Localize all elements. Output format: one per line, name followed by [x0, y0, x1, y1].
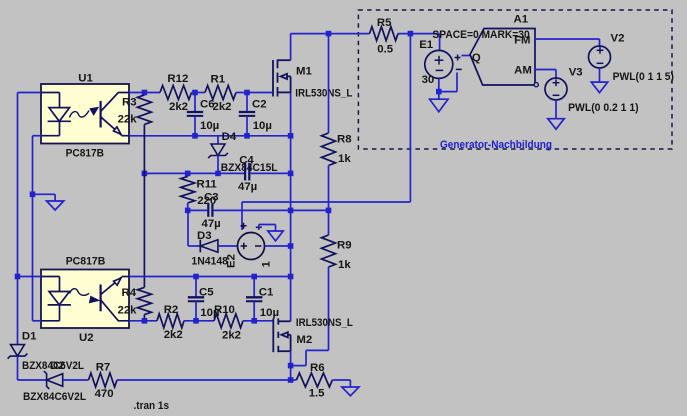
svg-text:D1: D1: [22, 331, 37, 343]
svg-text:R7: R7: [96, 362, 111, 374]
svg-text:47µ: 47µ: [238, 181, 257, 193]
junction E2 out: [288, 243, 294, 249]
junction mid rail right: [326, 208, 332, 214]
wire gnd stub: [33, 193, 56, 195]
wire jog h1: [306, 349, 329, 351]
wire to M1 gate: [236, 92, 273, 94]
svg-text:1N4148: 1N4148: [191, 256, 228, 268]
optocoupler U2: [41, 270, 129, 329]
wire to U2 cathode: [33, 320, 42, 322]
wire sense vertical: [409, 34, 411, 202]
svg-text:PC817B: PC817B: [66, 256, 106, 268]
svg-text:470: 470: [95, 388, 114, 400]
diode D3: [199, 240, 201, 253]
dashed box Generator-Nachbildung: [358, 10, 672, 149]
resistor R11: [181, 176, 195, 203]
junction R11 top: [185, 171, 191, 177]
svg-text:D2: D2: [50, 360, 65, 372]
wire V3 top: [555, 70, 557, 79]
wire to R8: [328, 34, 330, 133]
svg-text:C2: C2: [252, 99, 267, 111]
zener D1 symbol: [11, 345, 25, 357]
wire R11 bottom lead: [187, 203, 189, 211]
junction R3 bottom: [142, 171, 148, 177]
wire U2 emitter rail: [129, 320, 157, 322]
resistor R12: [160, 86, 192, 100]
wire V3 bottom: [555, 100, 557, 119]
wire R8 to R9: [328, 166, 330, 236]
wire top rail: [291, 33, 370, 35]
svg-text:R4: R4: [122, 287, 137, 299]
svg-text:E2: E2: [226, 254, 238, 268]
resistor R7: [89, 373, 118, 387]
wire M1 drain: [290, 34, 292, 61]
junction C5 top: [193, 274, 199, 280]
wire R5 to E1 corner: [398, 33, 440, 35]
svg-text:R3: R3: [122, 97, 137, 109]
wire E1 bottom: [438, 78, 440, 91]
zener diode D4: [211, 144, 225, 156]
svg-text:R11: R11: [197, 179, 218, 191]
svg-text:SPACE=0 MARK=30: SPACE=0 MARK=30: [432, 29, 529, 41]
svg-text:PWL(0 1 1 5): PWL(0 1 1 5): [613, 71, 675, 83]
resistor R1: [205, 86, 236, 100]
svg-text:2k2: 2k2: [169, 101, 188, 113]
svg-text:IRL530NS_L: IRL530NS_L: [296, 317, 353, 329]
wire: [192, 92, 206, 94]
wire U1 collector rail: [129, 92, 160, 94]
svg-text:10µ: 10µ: [253, 120, 272, 132]
svg-text:C3: C3: [204, 192, 219, 204]
svg-text:V3: V3: [569, 67, 583, 79]
svg-text:2k2: 2k2: [222, 330, 241, 342]
junction C6 top: [192, 90, 198, 96]
wire FM to V2: [535, 38, 600, 40]
wire U1 cathode: [33, 135, 42, 137]
junction R3 top: [142, 90, 148, 96]
svg-text:C6: C6: [200, 99, 215, 111]
junction C5 bottom: [193, 318, 199, 324]
ground E1: [438, 92, 440, 100]
svg-text:PWL(0 0.2 1 1): PWL(0 0.2 1 1): [568, 102, 639, 114]
resistor R8: [322, 133, 336, 166]
junction bottom rail: [288, 377, 294, 383]
junction R8 top: [326, 31, 332, 37]
wire AM to V3: [535, 69, 556, 71]
svg-text:22k: 22k: [118, 114, 138, 126]
wire R3-R4 link: [143, 173, 145, 287]
junction C2 top: [244, 90, 250, 96]
wire jog v: [305, 350, 307, 365]
controlled source E2: [238, 233, 265, 260]
junction gnd tap: [30, 192, 36, 198]
svg-text:2k2: 2k2: [164, 329, 183, 341]
wire to M2 gate: [243, 320, 273, 322]
optocoupler U1: [41, 84, 129, 144]
svg-text:10µ: 10µ: [200, 120, 219, 132]
svg-text:R2: R2: [164, 304, 179, 316]
wire E1 top lead: [439, 34, 441, 51]
svg-text:Generator-Nachbildung: Generator-Nachbildung: [440, 139, 552, 151]
junction M1 source rail: [288, 133, 294, 139]
capacitor C1: [253, 277, 255, 298]
junction M2 source jog: [288, 363, 294, 369]
junction rail right end: [288, 274, 294, 280]
svg-text:R1: R1: [211, 74, 226, 86]
svg-text:R9: R9: [337, 240, 352, 252]
svg-text:1.5: 1.5: [309, 388, 325, 400]
wire V2 top: [599, 39, 601, 46]
svg-text:IRL530NS_L: IRL530NS_L: [295, 88, 352, 100]
svg-text:R6: R6: [310, 362, 325, 374]
junction left column: [15, 274, 21, 280]
wire R6 to gnd: [332, 379, 350, 381]
svg-text:1: 1: [261, 261, 273, 268]
wire jog h2: [291, 365, 306, 367]
wire to E2 control+: [241, 202, 243, 230]
svg-text:PC817B: PC817B: [66, 148, 104, 160]
wire D4 top lead: [217, 136, 219, 144]
svg-text:1k: 1k: [338, 259, 351, 271]
wire D4 bottom lead: [217, 156, 219, 174]
wire D2 to R7: [63, 379, 89, 381]
svg-text:C1: C1: [259, 287, 274, 299]
wire R11 top lead: [187, 173, 189, 176]
voltage source V3: [545, 78, 567, 100]
resistor R6: [296, 373, 332, 387]
ground V2: [599, 81, 601, 83]
zener diode D2: [44, 371, 49, 389]
wire cathode column: [32, 136, 34, 321]
wire mid rail left: [144, 172, 244, 174]
svg-text:D3: D3: [197, 230, 212, 242]
svg-text:47µ: 47µ: [202, 218, 221, 230]
wire E1 ctrl+ to Q: [462, 55, 471, 57]
junction C1 top: [251, 274, 257, 280]
junction R4 bottom: [142, 318, 148, 324]
wire U1 anode: [18, 92, 42, 94]
ground R6: [349, 380, 351, 387]
svg-text:0.5: 0.5: [377, 44, 393, 56]
wire emitter rail: [129, 135, 291, 137]
svg-text:.tran 1s: .tran 1s: [134, 400, 170, 412]
wire R3 bottom lead: [143, 124, 145, 173]
resistor R9: [322, 235, 336, 267]
junction R11 bottom: [185, 208, 191, 214]
wire C3 left: [188, 209, 208, 211]
junction C2 bottom: [244, 133, 250, 139]
transistor M1: [273, 60, 291, 97]
svg-text:R10: R10: [214, 304, 235, 316]
ground V3: [555, 118, 557, 120]
junction mid vertical: [288, 208, 294, 214]
modulator A1: [470, 29, 535, 86]
junction C6 bottom: [192, 133, 198, 139]
wire D1 bottom: [17, 356, 19, 380]
wire: [291, 379, 296, 381]
transistor M2: [273, 318, 290, 352]
capacitor C5: [195, 277, 197, 298]
wire collector rail U2: [129, 276, 291, 278]
svg-text:U2: U2: [79, 332, 94, 344]
svg-text:Q: Q: [472, 52, 481, 64]
capacitor C4: [244, 163, 246, 181]
wire: [184, 320, 214, 322]
wire D3 branch down: [187, 210, 189, 246]
wire E2 ctrl- up: [258, 225, 260, 231]
wire E1 ctrl- down: [456, 73, 458, 92]
wire mid rail right: [250, 172, 291, 174]
wire E2 output: [265, 245, 291, 247]
wire D3 lead: [188, 245, 200, 247]
wire M1 source: [290, 92, 292, 135]
wire bottom rail: [117, 379, 291, 381]
voltage source E1: [425, 50, 453, 78]
wire C3 right rail: [213, 209, 328, 211]
svg-text:1k: 1k: [338, 153, 351, 165]
svg-text:D4: D4: [222, 131, 237, 143]
svg-text:22k: 22k: [118, 305, 138, 317]
ground E2 ctrl: [275, 225, 277, 232]
svg-text:30: 30: [422, 74, 435, 86]
capacitor C2: [246, 93, 248, 113]
junction E1 gnd: [436, 89, 442, 95]
svg-text:AM: AM: [514, 65, 532, 77]
junction C1 bottom: [251, 318, 257, 324]
wire to D2: [18, 379, 47, 381]
svg-text:R12: R12: [167, 73, 188, 85]
wire E2 ctrl- across: [259, 224, 276, 226]
junction D4 bottom: [215, 171, 221, 177]
junction R5-E1: [408, 31, 414, 37]
resistor R2: [157, 314, 184, 328]
svg-text:A1: A1: [514, 13, 529, 25]
svg-text:M2: M2: [296, 334, 312, 346]
wire sense horizontal: [242, 201, 410, 203]
voltage source V2: [589, 46, 611, 68]
capacitor C3: [207, 204, 209, 217]
resistor R5: [370, 27, 399, 41]
wire mid vertical: [290, 136, 292, 321]
svg-text:U1: U1: [78, 73, 93, 85]
svg-text:10µ: 10µ: [260, 307, 279, 319]
wire V2 bottom: [599, 68, 601, 82]
svg-text:R8: R8: [337, 134, 352, 146]
svg-text:C4: C4: [239, 155, 254, 167]
wire E1 ctrl- across: [439, 91, 457, 93]
svg-text:R5: R5: [377, 17, 392, 29]
capacitor C6: [194, 93, 196, 113]
wire to U2 anode: [18, 276, 42, 278]
resistor R4: [137, 287, 151, 314]
wire left column: [17, 93, 19, 277]
wire D3 to E2: [218, 245, 238, 247]
junction mid rail end: [288, 171, 294, 177]
wire R9 down: [328, 267, 330, 350]
wire R4 bottom lead: [143, 315, 145, 321]
resistor R3: [137, 95, 151, 125]
svg-text:2k2: 2k2: [213, 101, 232, 113]
ground LED cathodes: [54, 194, 56, 201]
svg-text:BZX84C6V2L: BZX84C6V2L: [23, 391, 86, 403]
wire left down to D1: [17, 277, 19, 345]
svg-text:V2: V2: [611, 33, 625, 45]
svg-text:C5: C5: [199, 287, 214, 299]
svg-text:M1: M1: [296, 66, 312, 78]
resistor R10: [214, 314, 243, 328]
wire M2 source: [290, 351, 292, 380]
